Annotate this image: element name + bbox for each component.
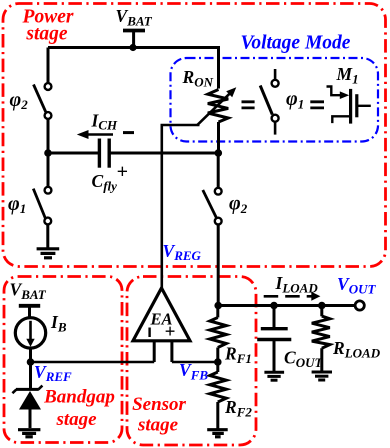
svg-text:Sensor: Sensor	[132, 394, 186, 415]
svg-text:stage: stage	[25, 24, 68, 45]
svg-text:Voltage Mode: Voltage Mode	[241, 33, 351, 54]
svg-text:+: +	[165, 322, 176, 343]
svg-text:stage: stage	[55, 409, 97, 430]
svg-text:+: +	[117, 161, 128, 183]
svg-text:stage: stage	[137, 415, 179, 436]
svg-text:Bandgap: Bandgap	[43, 387, 115, 408]
